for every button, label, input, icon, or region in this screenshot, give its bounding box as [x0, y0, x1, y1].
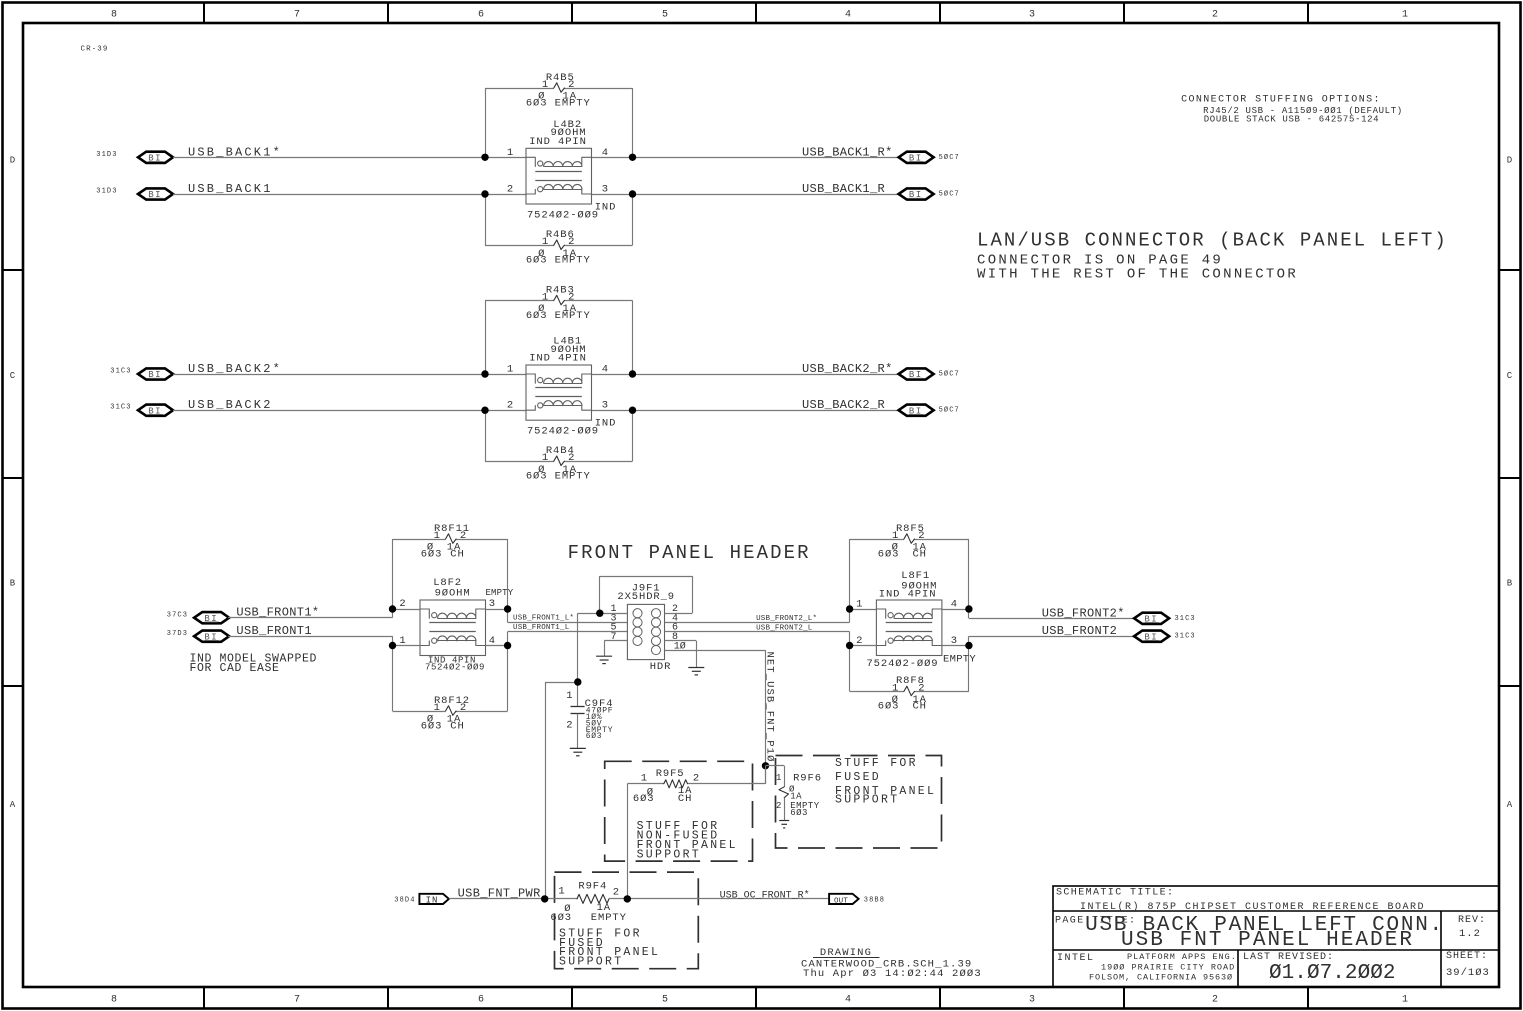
- svg-text:7524Ø2-ØØ9: 7524Ø2-ØØ9: [425, 662, 485, 672]
- wire USB_FRONT2*: [969, 618, 1134, 620]
- connector J9F1 2X5HDR_9: [627, 604, 664, 659]
- wire pin7 to ground: [604, 640, 627, 642]
- junction node R9F5 branch: [624, 895, 631, 902]
- title block: [1053, 886, 1499, 987]
- dashed box: fused front panel support (right): [776, 756, 942, 849]
- svg-text:6Ø3 EMPTY: 6Ø3 EMPTY: [526, 255, 591, 267]
- svg-text:1: 1: [434, 530, 441, 542]
- wire USB_FRONT2_L (pin 6): [665, 631, 850, 633]
- svg-text:2: 2: [460, 530, 467, 542]
- svg-text:2: 2: [776, 801, 782, 811]
- svg-text:3: 3: [602, 400, 609, 412]
- svg-text:5ØC7: 5ØC7: [939, 153, 960, 162]
- resistor R9F4: [577, 894, 609, 903]
- inductor L8F2 (common-mode choke): [420, 600, 486, 656]
- svg-text:5ØC7: 5ØC7: [939, 370, 960, 379]
- svg-text:1: 1: [558, 886, 565, 898]
- svg-text:USB_BACK2*: USB_BACK2*: [188, 362, 282, 376]
- svg-text:SUPPORT: SUPPORT: [835, 793, 899, 806]
- svg-text:USB_BACK2: USB_BACK2: [188, 398, 273, 412]
- resistor R8F11: [446, 534, 457, 544]
- svg-text:1: 1: [892, 530, 899, 542]
- svg-text:1: 1: [776, 773, 782, 783]
- wire loop for R8F11: [392, 539, 394, 618]
- svg-text:7524Ø2-ØØ9: 7524Ø2-ØØ9: [527, 210, 599, 222]
- svg-text:INTEL: INTEL: [1057, 953, 1095, 964]
- svg-text:5ØC7: 5ØC7: [939, 406, 960, 415]
- svg-text:2: 2: [568, 452, 575, 464]
- svg-text:PLATFORM APPS ENG.: PLATFORM APPS ENG.: [1127, 952, 1237, 962]
- wire loop for R8F8: [849, 632, 851, 692]
- svg-text:USB_FRONT1: USB_FRONT1: [236, 624, 312, 638]
- resistor R8F5: [904, 534, 915, 544]
- port BI USB_BACK1_R (right): [899, 188, 934, 199]
- svg-text:EMPTY: EMPTY: [943, 654, 976, 666]
- wire loop for R8F12: [392, 636, 394, 711]
- wire to R9F6: [766, 765, 785, 767]
- svg-text:4: 4: [602, 364, 609, 376]
- svg-text:31D3: 31D3: [96, 151, 117, 159]
- svg-text:FUSED: FUSED: [835, 771, 881, 784]
- wire USB_BACK2*: [173, 374, 526, 376]
- svg-text:3: 3: [602, 184, 609, 196]
- svg-text:SUPPORT: SUPPORT: [559, 956, 623, 969]
- port OUT USB_OC_FRONT_R*: [829, 894, 859, 904]
- junction node pin1: [596, 610, 603, 617]
- svg-text:USB_FRONT2: USB_FRONT2: [1042, 624, 1118, 638]
- svg-text:USB_FRONT2_L*: USB_FRONT2_L*: [756, 615, 817, 623]
- svg-text:6Ø3 EMPTY: 6Ø3 EMPTY: [526, 97, 591, 109]
- wire USB_BACK1: [173, 194, 526, 196]
- wire loop for R8F5: [849, 539, 851, 622]
- svg-text:6Ø3: 6Ø3: [633, 793, 655, 805]
- svg-text:31C3: 31C3: [1175, 615, 1196, 623]
- svg-text:DRAWING: DRAWING: [820, 947, 872, 959]
- svg-text:1: 1: [1402, 995, 1408, 1006]
- svg-text:USB_OC_FRONT_R*: USB_OC_FRONT_R*: [720, 890, 810, 902]
- svg-text:1: 1: [542, 236, 549, 248]
- svg-text:1: 1: [542, 79, 549, 91]
- wire R9F5 rail: [627, 783, 664, 785]
- svg-text:9ØOHM: 9ØOHM: [435, 587, 471, 599]
- svg-text:1: 1: [542, 452, 549, 464]
- svg-text:2: 2: [918, 682, 925, 694]
- svg-text:DOUBLE STACK USB - 642575-124: DOUBLE STACK USB - 642575-124: [1204, 115, 1379, 125]
- svg-text:1: 1: [566, 690, 573, 702]
- svg-text:4: 4: [602, 147, 609, 159]
- ground (pin 8): [688, 668, 704, 675]
- ground (R9F6): [779, 821, 789, 828]
- svg-text:WITH THE REST OF THE CONNECTOR: WITH THE REST OF THE CONNECTOR: [977, 267, 1298, 283]
- svg-text:NET_USB_FNT_P1Ø: NET_USB_FNT_P1Ø: [763, 652, 775, 763]
- wire USB_FRONT1_L: [508, 631, 628, 633]
- wire loop for R4B3: [485, 301, 487, 375]
- svg-text:7: 7: [294, 10, 300, 21]
- svg-text:4: 4: [845, 10, 851, 21]
- junction nodes L8F1: [846, 605, 853, 612]
- resistor R9F6: [779, 787, 789, 798]
- wire pin1 of J9F1: [578, 613, 628, 615]
- svg-text:CH: CH: [678, 793, 692, 805]
- svg-text:SHEET:: SHEET:: [1446, 951, 1488, 962]
- svg-text:2: 2: [693, 773, 700, 785]
- pin stubs L8F2: [393, 609, 421, 611]
- svg-text:USB_BACK1: USB_BACK1: [188, 182, 273, 196]
- svg-text:19ØØ PRAIRIE CITY ROAD: 19ØØ PRAIRIE CITY ROAD: [1101, 963, 1235, 973]
- svg-text:5ØC7: 5ØC7: [939, 190, 960, 199]
- svg-text:2: 2: [1212, 995, 1218, 1006]
- svg-text:CONNECTOR STUFFING OPTIONS:: CONNECTOR STUFFING OPTIONS:: [1181, 95, 1381, 106]
- resistor R4B3: [554, 295, 565, 305]
- svg-text:CH: CH: [450, 548, 464, 560]
- svg-text:2: 2: [1212, 10, 1218, 21]
- junction nodes L8F2: [389, 605, 396, 612]
- junction node NET_USB_FNT_P10: [762, 762, 769, 769]
- wire USB_FRONT1: [228, 636, 392, 638]
- port BI USB_FRONT2* (right): [1134, 613, 1169, 624]
- svg-text:31C3: 31C3: [110, 404, 131, 412]
- resistor R8F8: [904, 686, 915, 696]
- svg-text:FOR CAD EASE: FOR CAD EASE: [190, 662, 280, 675]
- svg-text:CH: CH: [450, 720, 464, 732]
- svg-text:C: C: [10, 371, 16, 381]
- svg-text:3: 3: [489, 598, 496, 610]
- port BI USB_BACK2_R (right): [899, 405, 934, 416]
- capacitor C9F4: [571, 706, 585, 708]
- svg-text:2: 2: [918, 530, 925, 542]
- wire USB_FNT_PWR: [449, 898, 577, 900]
- svg-text:D: D: [10, 156, 15, 166]
- svg-text:6: 6: [478, 10, 484, 21]
- svg-text:2: 2: [566, 720, 573, 732]
- svg-text:Ø1.Ø7.2ØØ2: Ø1.Ø7.2ØØ2: [1269, 962, 1396, 985]
- wire loop for R4B4: [485, 410, 487, 461]
- svg-text:37D3: 37D3: [167, 630, 188, 638]
- pin stubs L8F1: [850, 609, 877, 611]
- port BI USB_FRONT2 (right): [1134, 631, 1169, 642]
- svg-text:B: B: [10, 579, 16, 589]
- wire USB_BACK1*: [173, 157, 526, 159]
- junction node power rail: [541, 895, 548, 902]
- svg-text:INTEL(R) 875P CHIPSET CUSTOMER: INTEL(R) 875P CHIPSET CUSTOMER REFERENCE…: [1080, 901, 1425, 913]
- svg-text:2: 2: [460, 702, 467, 714]
- dashed box: fused front panel support (bottom): [555, 872, 699, 969]
- svg-text:3: 3: [1029, 995, 1035, 1006]
- svg-text:2: 2: [568, 236, 575, 248]
- wire pin8 to ground: [665, 640, 697, 642]
- svg-text:6Ø3: 6Ø3: [878, 701, 900, 713]
- svg-text:39/1Ø3: 39/1Ø3: [1446, 967, 1490, 979]
- junction node C9F4: [574, 678, 581, 685]
- svg-text:37C3: 37C3: [167, 612, 188, 620]
- svg-text:6Ø3: 6Ø3: [790, 808, 808, 818]
- svg-text:B: B: [1507, 579, 1513, 589]
- svg-text:USB_BACK1*: USB_BACK1*: [188, 145, 282, 159]
- svg-text:R9F5: R9F5: [656, 768, 685, 780]
- svg-text:USB_FRONT1_L*: USB_FRONT1_L*: [513, 614, 574, 622]
- svg-text:2: 2: [613, 886, 620, 898]
- svg-text:USB_FRONT1*: USB_FRONT1*: [236, 606, 319, 620]
- svg-text:EMPTY: EMPTY: [486, 588, 514, 598]
- svg-text:6Ø3: 6Ø3: [878, 548, 900, 560]
- svg-text:2X5HDR_9: 2X5HDR_9: [617, 591, 675, 603]
- svg-text:IND 4PIN: IND 4PIN: [529, 136, 587, 148]
- svg-text:USB_FRONT1_L: USB_FRONT1_L: [513, 624, 570, 632]
- svg-text:REV:: REV:: [1458, 915, 1486, 926]
- svg-text:6Ø3: 6Ø3: [421, 548, 443, 560]
- wire USB_FRONT2_L* (pin 4): [665, 622, 850, 624]
- svg-text:CR-39: CR-39: [81, 46, 109, 54]
- svg-text:SCHEMATIC TITLE:: SCHEMATIC TITLE:: [1056, 888, 1174, 899]
- svg-text:31D3: 31D3: [96, 188, 117, 196]
- ground (C9F4): [570, 748, 586, 755]
- svg-text:OUT: OUT: [834, 897, 848, 905]
- svg-text:D: D: [1507, 156, 1512, 166]
- svg-text:USB_BACK2_R*: USB_BACK2_R*: [802, 362, 893, 376]
- svg-text:31C3: 31C3: [1175, 633, 1196, 641]
- wire USB_BACK1_R*: [592, 157, 899, 159]
- resistor R8F12: [446, 706, 457, 716]
- svg-text:31C3: 31C3: [110, 368, 131, 376]
- svg-text:USB_BACK1_R*: USB_BACK1_R*: [802, 145, 893, 159]
- svg-text:6: 6: [478, 995, 484, 1006]
- svg-text:USB_FNT_PWR: USB_FNT_PWR: [458, 887, 541, 901]
- dashed box: non-fused front panel support: [605, 761, 753, 861]
- wire NET_USB_FNT_P10 (pin 10): [665, 650, 766, 652]
- svg-text:6Ø3: 6Ø3: [550, 912, 572, 924]
- svg-text:1: 1: [507, 364, 514, 376]
- svg-text:IND 4PIN: IND 4PIN: [529, 353, 587, 365]
- junction nodes: [481, 370, 488, 377]
- wire loop for R4B5: [485, 88, 487, 157]
- svg-text:STUFF FOR: STUFF FOR: [835, 757, 918, 770]
- svg-text:A: A: [10, 800, 16, 810]
- svg-text:SUPPORT: SUPPORT: [637, 849, 701, 862]
- svg-text:8: 8: [111, 10, 117, 21]
- svg-text:4: 4: [845, 995, 851, 1006]
- svg-text:7524Ø2-ØØ9: 7524Ø2-ØØ9: [527, 426, 599, 438]
- svg-text:A: A: [1507, 800, 1513, 810]
- resistor R4B5: [554, 83, 565, 93]
- wire USB_OC_FRONT_R*: [609, 898, 829, 900]
- wire USB_FRONT1_L*: [508, 622, 628, 624]
- svg-text:CH: CH: [912, 548, 926, 560]
- svg-text:USB_FRONT2_L: USB_FRONT2_L: [756, 624, 813, 632]
- svg-text:8: 8: [111, 995, 117, 1006]
- svg-text:R9F4: R9F4: [578, 880, 607, 892]
- svg-text:7524Ø2-ØØ9: 7524Ø2-ØØ9: [866, 658, 938, 670]
- svg-text:6Ø3: 6Ø3: [421, 720, 443, 732]
- svg-text:C: C: [1507, 371, 1513, 381]
- svg-text:2: 2: [507, 400, 514, 412]
- svg-text:6Ø3 EMPTY: 6Ø3 EMPTY: [526, 310, 591, 322]
- svg-text:3: 3: [1029, 10, 1035, 21]
- svg-text:1: 1: [507, 147, 514, 159]
- resistor R9F5: [664, 780, 688, 788]
- svg-text:1: 1: [1402, 10, 1408, 21]
- svg-text:1: 1: [434, 702, 441, 714]
- svg-text:USB_BACK2_R: USB_BACK2_R: [802, 398, 885, 412]
- svg-text:LAN/USB CONNECTOR (BACK PANEL: LAN/USB CONNECTOR (BACK PANEL LEFT): [977, 230, 1448, 252]
- svg-text:1: 1: [542, 292, 549, 304]
- wire USB_BACK2_R*: [592, 374, 899, 376]
- svg-text:4: 4: [951, 599, 958, 611]
- resistor R4B4: [554, 456, 565, 466]
- wire USB_FRONT2: [969, 636, 1134, 638]
- inductor L4B1 (common-mode choke): [526, 365, 592, 420]
- resistor R4B6: [554, 240, 565, 250]
- wire USB_BACK2: [173, 410, 526, 412]
- svg-text:7: 7: [294, 995, 300, 1006]
- inductor L8F1 (common-mode choke): [876, 600, 942, 656]
- wire to USB_FNT_PWR rail: [545, 682, 577, 684]
- wire pin1 vertical to C9F4: [577, 613, 579, 706]
- svg-text:IN: IN: [426, 895, 439, 905]
- svg-text:2: 2: [568, 292, 575, 304]
- svg-text:1.2: 1.2: [1459, 928, 1481, 940]
- port BI USB_BACK2_R* (right): [899, 368, 934, 379]
- svg-text:IND 4PIN: IND 4PIN: [879, 589, 937, 601]
- svg-text:Thu Apr Ø3 14:Ø2:44 2ØØ3: Thu Apr Ø3 14:Ø2:44 2ØØ3: [803, 968, 982, 980]
- wire USB_BACK2_R: [592, 410, 899, 412]
- svg-text:EMPTY: EMPTY: [591, 912, 627, 924]
- svg-text:38D4: 38D4: [394, 897, 415, 905]
- svg-text:R9F6: R9F6: [793, 772, 822, 784]
- svg-text:USB_FRONT2*: USB_FRONT2*: [1042, 606, 1125, 620]
- svg-text:2: 2: [568, 79, 575, 91]
- svg-text:USB_BACK1_R: USB_BACK1_R: [802, 182, 885, 196]
- svg-text:6Ø3: 6Ø3: [586, 732, 603, 741]
- wire USB_FRONT1*: [228, 617, 392, 619]
- svg-text:USB FNT PANEL HEADER: USB FNT PANEL HEADER: [1121, 929, 1414, 952]
- svg-text:CH: CH: [912, 701, 926, 713]
- svg-text:2: 2: [399, 598, 406, 610]
- svg-text:FOLSOM, CALIFORNIA 9563Ø: FOLSOM, CALIFORNIA 9563Ø: [1089, 973, 1233, 983]
- ground (pin 7): [596, 656, 612, 663]
- wire USB_BACK1_R: [592, 194, 899, 196]
- svg-text:5: 5: [662, 995, 668, 1006]
- svg-text:FRONT PANEL HEADER: FRONT PANEL HEADER: [568, 542, 811, 564]
- inductor L4B2 (common-mode choke): [526, 148, 592, 204]
- wire pin1-pin2 bracket: [599, 576, 601, 613]
- svg-text:1: 1: [892, 682, 899, 694]
- svg-text:6Ø3 EMPTY: 6Ø3 EMPTY: [526, 471, 591, 483]
- svg-text:7: 7: [610, 632, 616, 643]
- svg-text:2: 2: [507, 184, 514, 196]
- wire loop for R4B6: [485, 194, 487, 245]
- svg-text:5: 5: [662, 10, 668, 21]
- svg-text:38B8: 38B8: [864, 897, 885, 905]
- junction nodes: [481, 154, 488, 161]
- svg-text:1: 1: [641, 773, 648, 785]
- svg-text:1: 1: [856, 599, 863, 611]
- port BI USB_BACK1_R* (right): [899, 152, 934, 163]
- svg-text:HDR: HDR: [650, 661, 672, 673]
